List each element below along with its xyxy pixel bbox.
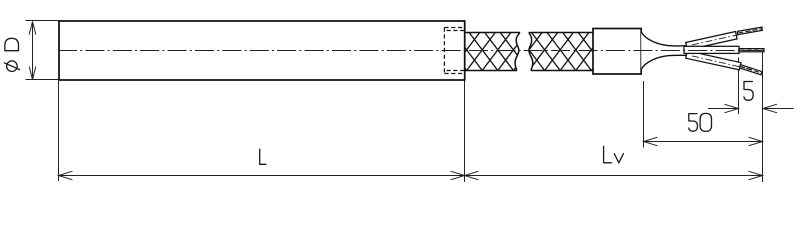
- bare conductor middle: [739, 49, 764, 52]
- ferrule sleeve: [593, 29, 641, 75]
- phi-D arrows: [29, 22, 36, 80]
- label L: [260, 149, 266, 164]
- 5 dim left extension line: [738, 58, 740, 115]
- label 50: [689, 113, 712, 131]
- strain-relief taper (trumpet): [641, 32, 687, 69]
- top wire centre dash-dot: [692, 32, 752, 45]
- braid section 1 outline (top, bottom edges + wavy break edge): [465, 33, 594, 71]
- 50 dimension line: [644, 141, 763, 143]
- wire bottom (insulated): [686, 51, 741, 70]
- label Lv: [604, 146, 624, 162]
- wire middle (insulated): [684, 46, 739, 53]
- phi-D dimension line: [32, 22, 34, 80]
- phi-D dimension extension lines: [26, 21, 59, 80]
- label phiD (rotated): [4, 38, 19, 71]
- L dimension left extension line: [58, 81, 60, 181]
- right shared extension line (5 / 50 / Lv): [762, 52, 764, 182]
- centre line (dash-dot): [58, 50, 765, 52]
- 50 dim left extension line: [643, 81, 645, 148]
- wire top (insulated): [686, 32, 737, 50]
- bare conductor bottom: [739, 65, 762, 75]
- braid section 2 outline (top, bottom edges + wavy break edge): [529, 32, 594, 34]
- main sheath body rectangle: [59, 21, 465, 80]
- braid section 2 hatch: [513, 33, 620, 71]
- hidden element dashed box (outer): [444, 28, 464, 74]
- L arrows: [59, 171, 763, 180]
- L dimension line: [59, 175, 465, 177]
- braid section 1 hatch: [435, 33, 542, 71]
- shared extension line L / Lv: [464, 81, 466, 182]
- bottom wire centre dash-dot: [692, 56, 752, 70]
- 50 arrows: [644, 137, 763, 146]
- 5 dimension external arrows: [708, 104, 794, 113]
- bare conductor top: [737, 27, 762, 35]
- hidden element dashed box (inner wall lines): [447, 31, 465, 71]
- Lv dimension line: [465, 175, 763, 177]
- label 5: [744, 82, 753, 101]
- Lv arrows: [465, 171, 479, 180]
